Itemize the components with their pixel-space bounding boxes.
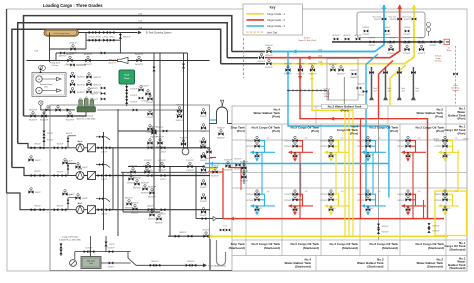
svg-text:S03VCP: S03VCP (240, 171, 248, 173)
svg-text:Inert Gas: Inert Gas (451, 87, 459, 90)
valve slop port suction (234, 159, 242, 171)
svg-text:F09VCP: F09VCP (176, 110, 184, 112)
svg-text:B10VCP: B10VCP (187, 261, 195, 263)
slop stbd heating coil (217, 240, 226, 266)
svg-text:S01VCP: S01VCP (234, 159, 242, 161)
valve W04VCP eductor (66, 54, 75, 66)
svg-text:(Starboard): (Starboard) (342, 246, 358, 250)
svg-text:F15VCP: F15VCP (404, 34, 412, 36)
valve pair CH2-L (103, 29, 116, 34)
svg-text:(Port): (Port) (311, 129, 319, 133)
svg-text:CH3-L: CH3-L (109, 37, 116, 39)
red pair down to main at No.2 (423, 200, 425, 219)
svg-text:F16VCP: F16VCP (434, 194, 442, 196)
shore connection box (444, 39, 449, 44)
svg-text:F21VCP: F21VCP (357, 146, 365, 148)
svg-text:S07VCP: S07VCP (202, 230, 210, 232)
from ballast main line (136, 264, 204, 266)
svg-text:B03VCP: B03VCP (329, 64, 337, 66)
vacuum suction top circle (39, 66, 43, 70)
tank cluster stbd x374 (357, 190, 386, 216)
valve below shore 2 (418, 43, 426, 55)
svg-text:F11VCP: F11VCP (387, 43, 395, 45)
colored stubs at pump room edge (210, 119, 216, 121)
svg-text:S04VCP: S04VCP (224, 160, 232, 162)
svg-text:Slop Drain: Slop Drain (87, 261, 95, 263)
tank cleaning line 2 (86, 33, 120, 50)
svg-text:F32VCP: F32VCP (404, 38, 412, 40)
svg-text:F07VCP: F07VCP (156, 146, 164, 148)
valve web B04VCP (148, 187, 156, 199)
svg-text:F24VCP: F24VCP (284, 141, 292, 143)
svg-text:F09VCP: F09VCP (176, 120, 184, 122)
svg-text:F01VCP: F01VCP (265, 67, 273, 69)
svg-text:Key: Key (270, 6, 276, 10)
valve web B07VCP (148, 209, 156, 221)
svg-text:F27VCP: F27VCP (246, 200, 254, 202)
tank cluster port x414 (397, 136, 426, 162)
svg-text:CH2-L: CH2-L (109, 29, 116, 31)
valve red manifold F02VCP (258, 51, 266, 63)
svg-text:F13VCP: F13VCP (186, 160, 194, 162)
svg-text:Loading Cargo : Three Grades: Loading Cargo : Three Grades (43, 3, 103, 8)
svg-text:F20VCP: F20VCP (357, 141, 365, 143)
svg-text:F16VCP: F16VCP (200, 173, 208, 175)
svg-text:B02VCP: B02VCP (133, 187, 141, 189)
svg-text:F33VCP: F33VCP (418, 38, 426, 40)
svg-text:F22VCP: F22VCP (320, 194, 328, 196)
vacuum discharge gauge (39, 101, 43, 105)
svg-text:D06CP: D06CP (35, 160, 42, 162)
svg-text:F23VCP: F23VCP (309, 64, 317, 66)
pipe yellow triple verticals (345, 106, 353, 236)
P/V breather circles (427, 23, 431, 27)
svg-text:W08VCP: W08VCP (77, 92, 86, 94)
svg-text:SB01CP: SB01CP (123, 36, 131, 38)
pipe yellow drop right diagonal (390, 65, 406, 106)
svg-text:F25VCP: F25VCP (284, 146, 292, 148)
cargo pump No.2 row (52, 161, 113, 182)
tank cluster stbd x414 (397, 190, 426, 216)
svg-text:Tank Cleaning Heater: Tank Cleaning Heater (53, 32, 70, 35)
svg-text:F17VCP: F17VCP (434, 200, 442, 202)
svg-text:Clean: Clean (124, 78, 131, 80)
lower web line y166.5 (128, 166, 205, 168)
svg-text:M: M (38, 79, 40, 81)
cargo pump No.1 row (52, 195, 113, 216)
tank cleaning line 1 (79, 32, 138, 34)
svg-text:F26VCP: F26VCP (246, 194, 254, 196)
valve web F11VCP (144, 160, 152, 172)
tank grid vertical lines cargo columns (246, 124, 446, 256)
svg-text:Tank: Tank (89, 263, 93, 265)
svg-text:F21VCP: F21VCP (357, 200, 365, 202)
valve pair CH3-R (88, 37, 101, 42)
svg-text:W04VCP: W04VCP (29, 110, 38, 112)
svg-text:F11VCP: F11VCP (418, 53, 426, 55)
wire bus3 deck line (12, 29, 221, 167)
svg-text:F30VCP: F30VCP (369, 38, 377, 40)
svg-text:F27VCP: F27VCP (246, 146, 254, 148)
pipe cyan branch down x300.6 (300, 164, 302, 198)
svg-text:W02VCP: W02VCP (90, 93, 99, 95)
svg-text:Eductor: Eductor (109, 59, 116, 62)
svg-text:(Starboard): (Starboard) (264, 246, 280, 250)
svg-text:F17VCP: F17VCP (434, 146, 442, 148)
valve stripping suction W02VCP (66, 110, 75, 122)
svg-text:W05VCP: W05VCP (84, 54, 93, 56)
svg-text:F16VCP: F16VCP (200, 201, 208, 203)
CH01CP valve line (50, 33, 87, 63)
motor circle (41, 66, 46, 71)
svg-text:Cargo Grade : 1: Cargo Grade : 1 (267, 13, 286, 16)
legend box Key (243, 4, 303, 35)
wire stripping pump suction riser (85, 112, 87, 116)
valve slop column S03VCP (240, 171, 248, 183)
svg-text:W12CP: W12CP (47, 133, 54, 135)
collector line y53 (56, 53, 188, 61)
valve web F15VCP (143, 166, 151, 178)
pump row discharge lines to right (111, 148, 210, 210)
svg-text:(Port): (Port) (436, 129, 444, 133)
svg-text:Oil Tank: Oil Tank (435, 61, 442, 63)
pipe red bottom main (223, 218, 444, 220)
valve cyan drop F21VCP (284, 64, 292, 76)
left web verticals (123, 172, 160, 212)
vacuum pump unit box (32, 73, 66, 97)
inert gas valve and line (446, 41, 449, 43)
svg-text:CH2-R: CH2-R (94, 29, 101, 31)
relief valve on U loop (220, 100, 223, 107)
tank grid horizontal lines (232, 124, 467, 256)
wire bus4 left suction (5, 9, 7, 193)
svg-text:F18VCP: F18VCP (397, 194, 405, 196)
valve web B03VCP (141, 183, 149, 195)
svg-text:Cargo Grade : 2: Cargo Grade : 2 (267, 19, 286, 22)
cyan riser upper (383, 6, 385, 12)
valve red riser in box (397, 17, 402, 20)
svg-text:F02VCP: F02VCP (258, 51, 266, 53)
drain tank upper valves (60, 243, 62, 256)
svg-text:(Starboard): (Starboard) (427, 264, 443, 268)
stripping pump (77, 97, 96, 112)
svg-text:F11VCP: F11VCP (387, 53, 395, 55)
svg-text:W06VCP: W06VCP (77, 76, 86, 78)
svg-text:F22VCP: F22VCP (320, 141, 328, 143)
between-row clusters (62, 159, 75, 165)
svg-text:W06VCP: W06VCP (350, 70, 358, 72)
svg-text:B08VCP: B08VCP (155, 222, 163, 224)
svg-text:F10VCP: F10VCP (180, 147, 188, 149)
valve below shore 0 (387, 43, 395, 55)
wire bus2 to pump row1 (18, 144, 52, 148)
svg-text:F11VCP: F11VCP (403, 53, 411, 55)
lower web line y172 (121, 171, 208, 173)
tank grid vertical lines ballast columns (316, 106, 446, 271)
svg-text:F12VCP: F12VCP (158, 160, 166, 162)
wire yellow manifold black stub (221, 63, 265, 65)
svg-text:F10VCP: F10VCP (180, 138, 188, 140)
pipe yellow No.1 riser (457, 150, 459, 191)
valve SB01CP vertical (119, 33, 121, 54)
slop drain tank (81, 257, 101, 269)
svg-text:W01CP: W01CP (66, 133, 73, 135)
svg-text:(Starboard): (Starboard) (382, 246, 398, 250)
svg-text:W04VCP: W04VCP (66, 54, 75, 56)
svg-text:F02VCP: F02VCP (258, 61, 266, 63)
svg-text:D06CP: D06CP (82, 167, 89, 169)
svg-text:Cargo Oil Tank (Port): Cargo Oil Tank (Port) (298, 39, 316, 42)
svg-text:F21VCP: F21VCP (284, 73, 292, 75)
svg-text:(Starboard): (Starboard) (303, 246, 319, 250)
svg-text:TC05CP: TC05CP (141, 101, 149, 103)
riser x44 with valves (43, 112, 45, 146)
svg-text:F31VCP: F31VCP (389, 38, 397, 40)
ballast crossover box (327, 59, 358, 100)
svg-text:CH01CP: CH01CP (69, 43, 78, 45)
svg-text:2,500m³/h at 135 mWc: 2,500m³/h at 135 mWc (59, 239, 82, 242)
svg-text:F11VCP: F11VCP (144, 160, 152, 162)
svg-text:TC04CP: TC04CP (141, 86, 149, 88)
valve riser F09VCP (176, 110, 184, 122)
valve below shore 1 (403, 43, 411, 55)
svg-text:F26VCP: F26VCP (246, 141, 254, 143)
svg-text:(Starboard): (Starboard) (449, 248, 465, 252)
svg-text:F23VCP: F23VCP (320, 146, 328, 148)
stripping discharge risers (184, 53, 188, 148)
svg-text:F21VCP: F21VCP (284, 64, 292, 66)
valve row 2 in box (363, 27, 371, 36)
svg-text:D06CP: D06CP (69, 163, 76, 165)
gauge circle (70, 260, 77, 267)
svg-text:S03VCP: S03VCP (211, 175, 219, 177)
valve yellow manifold F01VCP (265, 57, 273, 69)
slop port suction cluster (199, 141, 213, 160)
svg-text:W11CP: W11CP (34, 205, 41, 207)
svg-text:S04VCP: S04VCP (224, 169, 232, 171)
svg-text:CH3-R: CH3-R (94, 37, 101, 39)
svg-text:F19VCP: F19VCP (397, 200, 405, 202)
tank label No.3 WB port (322, 104, 368, 108)
svg-text:F14VCP: F14VCP (384, 27, 392, 29)
svg-text:F20VCP: F20VCP (357, 194, 365, 196)
valves below green box (126, 84, 128, 106)
valve web B06VCP (131, 203, 139, 215)
valve yellow drop F23VCP (309, 64, 317, 76)
svg-text:B01VCP: B01VCP (333, 35, 341, 37)
svg-text:S10VCP: S10VCP (382, 232, 390, 234)
eductor symbol (118, 57, 129, 63)
svg-text:F15VCP: F15VCP (143, 175, 151, 177)
valve web F12VCP (158, 160, 166, 172)
svg-text:(Port): (Port) (350, 131, 358, 135)
valve red slop S03VCP (211, 166, 219, 178)
svg-text:300m³/h: 300m³/h (108, 61, 116, 64)
valve web F14VCP (129, 166, 137, 178)
svg-text:(Port): (Port) (458, 117, 466, 121)
tank cluster port x301 (284, 136, 313, 162)
valve slop column S02VCP (240, 162, 248, 174)
svg-text:B09VCP: B09VCP (151, 261, 159, 263)
svg-text:F08VCP: F08VCP (176, 105, 184, 107)
svg-text:Stripping Pump: Stripping Pump (79, 115, 94, 118)
svg-text:F30VCP: F30VCP (369, 45, 377, 47)
svg-text:F16VCP: F16VCP (200, 215, 208, 217)
valve web F13VCP (186, 160, 194, 172)
svg-text:W03VCP: W03VCP (135, 54, 144, 56)
svg-text:F23VCP: F23VCP (309, 73, 317, 75)
tank cleaning heater (44, 29, 79, 36)
svg-text:B02VCP: B02VCP (133, 178, 141, 180)
svg-text:SB02CP: SB02CP (217, 137, 225, 139)
svg-text:B06VCP: B06VCP (131, 212, 139, 214)
valve mid riser F07VCP (156, 137, 164, 149)
pipe yellow drop x312 (312, 64, 353, 111)
valve SB02CP (217, 128, 225, 140)
svg-text:B06VCP: B06VCP (355, 35, 363, 37)
svg-text:B07VCP: B07VCP (148, 209, 156, 211)
wire cyan manifold black stub (232, 51, 265, 53)
svg-text:S09VCP: S09VCP (382, 226, 390, 228)
yellow No.1 stbd loop box (435, 191, 467, 236)
svg-text:D01VCP: D01VCP (86, 247, 94, 249)
svg-text:F16VCP: F16VCP (200, 116, 208, 118)
svg-text:B05VCP: B05VCP (125, 207, 133, 209)
pipe cargo grade 3 manifold (272, 5, 384, 52)
valve web B05VCP (125, 198, 133, 210)
svg-text:F17VCP: F17VCP (147, 117, 155, 119)
svg-text:W01CP: W01CP (57, 144, 64, 146)
vacuum discharge line (41, 105, 75, 110)
svg-text:F13VCP: F13VCP (186, 170, 194, 172)
svg-text:B11VCP: B11VCP (433, 226, 441, 228)
valves on shore line (369, 38, 377, 47)
cluster right of green box (138, 86, 150, 103)
svg-text:D01CP: D01CP (101, 179, 108, 181)
yellow riser upper (413, 6, 415, 12)
eductor cluster left of drops (350, 70, 358, 79)
svg-text:S06VCP: S06VCP (205, 158, 213, 160)
svg-text:F11VCP: F11VCP (403, 43, 411, 45)
svg-text:Unit: Unit (44, 86, 48, 89)
svg-text:W02VCP: W02VCP (66, 119, 75, 121)
svg-text:(Port): (Port) (272, 129, 280, 133)
svg-text:(Port): (Port) (464, 138, 469, 141)
svg-text:B03VCP: B03VCP (141, 183, 149, 185)
svg-text:SB02CP: SB02CP (217, 128, 225, 130)
pipe cyan stripping main (205, 163, 389, 165)
svg-text:(Port): (Port) (390, 129, 398, 133)
mid risers x154 x160 (154, 53, 160, 212)
svg-text:F17VCP: F17VCP (147, 102, 155, 104)
valve pair CH3-L (103, 37, 116, 42)
svg-text:B04VCP: B04VCP (148, 187, 156, 189)
M valve pair near red pair (427, 223, 440, 233)
wire bus2 deck line (18, 23, 228, 144)
svg-text:B05VCP: B05VCP (125, 198, 133, 200)
svg-text:F22VCP: F22VCP (297, 64, 305, 66)
svg-text:W11CP: W11CP (34, 171, 41, 173)
svg-text:W04VCP: W04VCP (29, 119, 38, 121)
svg-text:Cargo Grade : 3: Cargo Grade : 3 (267, 25, 286, 28)
yellow slop valves (202, 230, 210, 238)
svg-text:D06CP: D06CP (35, 192, 42, 194)
pipe cargo grade 1 manifold (272, 5, 414, 64)
shore arrow (440, 40, 444, 44)
svg-text:(Starboard): (Starboard) (229, 246, 245, 250)
slop column valve stack (243, 160, 245, 184)
svg-text:Inert Gas: Inert Gas (267, 31, 278, 34)
svg-text:B03VCP: B03VCP (141, 192, 149, 194)
pipe yellow bottom main (207, 235, 448, 237)
dashed deck demarcation (243, 38, 245, 78)
svg-text:To Tank Cleaning System: To Tank Cleaning System (146, 31, 172, 34)
svg-text:D05CP: D05CP (160, 179, 167, 181)
pipe cyan drop x288 (288, 52, 389, 198)
svg-text:B04VCP: B04VCP (148, 196, 156, 198)
valve web B01VCP (127, 173, 135, 185)
gray pipe at 378.5 (378, 119, 380, 240)
svg-text:F10VCP: F10VCP (404, 19, 412, 21)
vertical x196 to red stub (195, 167, 197, 219)
svg-text:F13VCP: F13VCP (363, 27, 371, 29)
stripping discharge line across (97, 110, 210, 131)
valve stripping suction W03VCP (40, 110, 49, 122)
tank grid outer border (232, 106, 467, 271)
svg-text:System: System (452, 89, 459, 92)
valve riser F08VCP (176, 105, 184, 117)
valve W03VCP eductor out (135, 54, 144, 66)
valve red drop F22VCP (297, 64, 305, 76)
valve W05VCP eductor (84, 54, 93, 66)
svg-text:S02VCP: S02VCP (240, 162, 248, 164)
svg-text:(Stbd): (Stbd) (324, 95, 330, 98)
svg-text:F18VCP: F18VCP (397, 141, 405, 143)
sea suction valves row y147.8 (31, 146, 36, 149)
svg-text:Eductor: Eductor (358, 94, 365, 97)
svg-text:S08VCP: S08VCP (179, 232, 187, 234)
svg-text:D05CP: D05CP (160, 151, 167, 153)
valve web B02VCP (133, 178, 141, 190)
slop drain collector line (75, 236, 131, 259)
svg-text:Cargo Oil Pumps: Cargo Oil Pumps (62, 235, 80, 238)
tank cluster stbd x451 (434, 190, 459, 216)
svg-text:W07VCP: W07VCP (77, 84, 86, 86)
svg-text:F11VCP: F11VCP (418, 43, 426, 45)
svg-text:200m³/h at 135 mWc: 200m³/h at 135 mWc (76, 117, 95, 120)
svg-text:W03VCP: W03VCP (135, 64, 144, 66)
svg-text:(Starboard): (Starboard) (449, 266, 465, 270)
svg-text:W01CP: W01CP (57, 206, 64, 208)
tank cluster port x337 (320, 136, 349, 162)
svg-text:F01VCP: F01VCP (265, 57, 273, 59)
valve stack on 378.5 low (377, 224, 389, 234)
svg-text:D06CP: D06CP (82, 198, 89, 200)
wire bus1 stripping suction (24, 115, 87, 117)
svg-text:F14VCP: F14VCP (129, 166, 137, 168)
svg-text:(Port): (Port) (435, 115, 443, 119)
eductor line (27, 60, 210, 62)
svg-text:D06CP: D06CP (69, 194, 76, 196)
svg-text:F03VCP: F03VCP (265, 45, 273, 47)
valve CH01CP (69, 43, 78, 55)
svg-text:F16VCP: F16VCP (200, 187, 208, 189)
drain tank piping (91, 236, 131, 263)
red riser upper (399, 6, 401, 12)
red stbd slop black stub (196, 218, 223, 220)
svg-text:F16VCP: F16VCP (200, 160, 208, 162)
manifold drop pipes (369, 67, 378, 100)
